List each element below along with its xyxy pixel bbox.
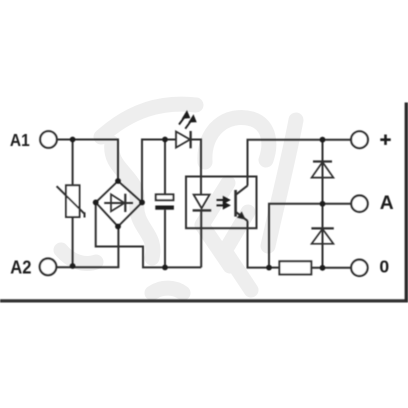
junction dots: [70, 137, 326, 271]
bridge rectifier V1: [96, 181, 142, 227]
optocoupler light arrows: [217, 197, 230, 209]
frame lines (page border, decorative): [0, 299, 408, 302]
phototransistor Q1: [236, 186, 248, 221]
node bridge right: [139, 200, 145, 206]
label +: [380, 135, 390, 145]
node bridge top: [115, 178, 121, 184]
wire resistor to 0 terminal: [311, 267, 351, 269]
terminal A2: [40, 259, 57, 276]
wire top rail to capacitor: [164, 140, 166, 195]
wire collector up to plus rail: [248, 140, 323, 186]
terminal A1: [40, 131, 57, 148]
terminal A: [351, 196, 367, 212]
wire plus rail to terminal: [323, 139, 352, 141]
terminal 0: [351, 260, 367, 276]
node 0 line/diode V4: [320, 265, 326, 271]
wire emitter to 0 node: [248, 221, 270, 268]
resistor R2: [279, 261, 311, 274]
svg-text:A: A: [380, 193, 394, 214]
optocoupler internal LED: [193, 195, 212, 211]
node A line/diodes: [320, 201, 326, 207]
wire internal LED cathode to minus rail: [200, 210, 202, 267]
node A1/varistor: [70, 137, 76, 143]
watermark: [61, 104, 296, 293]
node minus rail/capacitor: [162, 265, 168, 271]
terminal +: [351, 131, 368, 148]
node emitter/A branch/resistor: [266, 265, 272, 271]
wire capacitor bottom to minus rail: [164, 210, 166, 268]
diode V4 (between A and 0): [311, 204, 333, 268]
LED V2: [176, 131, 191, 148]
optocoupler U1 box: [186, 177, 257, 229]
wire 0 node to resistor: [269, 267, 279, 269]
wire bridge right (plus) up to top rail: [142, 140, 176, 203]
node plus rail/diode V3: [320, 137, 326, 143]
LED light arrows: [179, 111, 196, 129]
svg-text:A1: A1: [10, 130, 30, 150]
wire varistor top: [72, 140, 74, 186]
diode V3 (between + and A): [312, 140, 334, 204]
node A2/varistor: [70, 263, 76, 269]
svg-text:0: 0: [379, 256, 389, 276]
wire A branch: [269, 204, 351, 268]
wire varistor bottom: [72, 217, 74, 267]
wire LED cathode down into optocoupler: [191, 140, 201, 195]
capacitor C1: [155, 194, 174, 209]
wire A2 to bridge bottom corner: [56, 227, 118, 268]
varistor R1: [57, 185, 85, 217]
svg-text:A2: A2: [10, 257, 31, 277]
wire bridge left (minus) to bottom rail: [96, 202, 202, 267]
node bridge left: [93, 200, 99, 206]
wire A1 to bridge top corner: [57, 140, 118, 182]
node top rail/capacitor: [162, 137, 168, 143]
node bridge bottom: [115, 224, 121, 230]
